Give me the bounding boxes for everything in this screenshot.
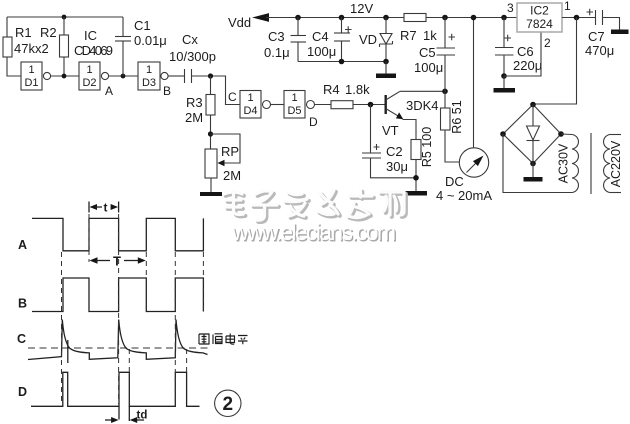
wire R4 to base <box>353 104 385 106</box>
capacitor C1 <box>115 17 131 76</box>
capacitor Cx <box>185 69 192 83</box>
capacitor C2 polarized <box>362 105 416 178</box>
svg-text:1: 1 <box>564 0 571 13</box>
wire rail after R7 <box>426 17 517 19</box>
svg-text:10/300p: 10/300p <box>169 49 216 64</box>
svg-text:2: 2 <box>544 36 551 50</box>
dim t ticks <box>88 202 90 213</box>
dashed guide x118.6 <box>118 214 120 404</box>
svg-text:1: 1 <box>247 92 253 104</box>
svg-text:0.1μ: 0.1μ <box>264 45 290 60</box>
wire Cx to node C corner <box>192 76 241 105</box>
svg-text:T: T <box>113 254 121 269</box>
label threshold 阈值电平 <box>199 334 248 345</box>
svg-text:0.01μ: 0.01μ <box>134 33 167 48</box>
ground emitter <box>405 191 427 196</box>
svg-text:2M: 2M <box>185 110 203 125</box>
svg-text:RP: RP <box>221 144 239 159</box>
regulator IC2 7824 <box>517 3 562 32</box>
ground C7 <box>611 30 629 35</box>
resistor R3 <box>206 95 215 116</box>
dashed guide x62 <box>61 252 63 404</box>
inverter U-D4 <box>240 91 271 119</box>
potentiometer RP <box>205 134 240 178</box>
svg-text:Vdd: Vdd <box>228 15 251 30</box>
wire collector to C5 branch <box>400 90 445 92</box>
wire bridge right to winding top <box>561 133 572 136</box>
wire R3 bottom <box>210 115 212 149</box>
svg-text:47kx2: 47kx2 <box>14 41 49 56</box>
svg-text:www.elecians.com: www.elecians.com <box>231 219 396 245</box>
bridge rectifier <box>500 102 564 167</box>
capacitor C7 polarized <box>587 9 620 30</box>
junction C1 bottom <box>121 74 126 79</box>
svg-text:7824: 7824 <box>526 17 553 31</box>
tick first crossing <box>67 340 69 363</box>
transistor VT 3DK4 <box>386 91 404 119</box>
transformer winding AC220V <box>604 135 621 193</box>
dashed guide crossing2 <box>128 349 130 372</box>
resistor R4 <box>331 101 353 109</box>
transformer core <box>590 133 592 194</box>
svg-text:D2: D2 <box>82 77 96 89</box>
svg-text:VD: VD <box>359 32 377 47</box>
wire meter top to rail <box>473 18 475 148</box>
svg-text:D: D <box>18 385 27 399</box>
svg-text:R1: R1 <box>15 25 32 40</box>
svg-text:C5: C5 <box>419 45 436 60</box>
wire D3 out to Cx <box>168 75 184 77</box>
svg-text:1: 1 <box>146 64 152 76</box>
figure number circle 2 <box>215 390 241 416</box>
wire RP bottom <box>210 178 212 192</box>
capacitor C4 polarized <box>334 18 352 62</box>
junction C4 top <box>339 15 345 21</box>
svg-text:4 ~ 20mA: 4 ~ 20mA <box>436 188 492 203</box>
svg-text:1.8k: 1.8k <box>345 82 370 97</box>
resistor R2 <box>60 35 69 57</box>
wire R1 left branch <box>6 17 8 37</box>
svg-text:2: 2 <box>223 394 234 415</box>
wire pin2 of IC2 <box>504 32 541 76</box>
junction C5 top <box>442 15 448 21</box>
node top junction <box>62 15 67 20</box>
junction collector/C5/R6 <box>442 89 448 95</box>
watermark highlight 电子发烧友网 <box>224 190 404 220</box>
ground RP <box>200 192 222 196</box>
junction output <box>574 15 580 21</box>
svg-text:C: C <box>228 90 237 104</box>
svg-text:R7: R7 <box>400 28 417 43</box>
svg-text:IC: IC <box>84 28 97 43</box>
inverter U-D5 <box>284 91 315 119</box>
trace D <box>31 372 200 406</box>
wire top-left feedback rail <box>7 16 123 18</box>
svg-text:2M: 2M <box>223 168 241 183</box>
junction VD top <box>383 15 389 21</box>
resistor R1 <box>3 37 12 57</box>
svg-text:AC220V: AC220V <box>609 140 623 187</box>
transformer winding AC30V <box>572 135 578 193</box>
svg-text:D: D <box>309 115 318 129</box>
junction C4 bottom <box>339 59 345 65</box>
wire bridge left to winding bottom <box>503 134 572 193</box>
wire VD to ground <box>385 62 387 74</box>
svg-text:td: td <box>137 410 148 422</box>
junction C2/R5 <box>413 175 419 181</box>
svg-text:3DK4: 3DK4 <box>406 98 439 113</box>
dim td arrows <box>105 419 112 421</box>
svg-text:B: B <box>163 84 171 98</box>
dim td ticks <box>118 406 120 419</box>
wire R5 bottom <box>415 160 417 192</box>
wire R1 bottom to D1 input <box>7 57 21 76</box>
wire D1 out to D2 in <box>51 75 79 77</box>
wire R2 top <box>63 17 65 35</box>
svg-text:CD4069: CD4069 <box>74 43 113 58</box>
resistor R6 <box>441 108 451 130</box>
svg-text:1: 1 <box>28 64 34 76</box>
junction meter branch <box>471 15 477 21</box>
zener diode VD <box>380 18 393 62</box>
resistor R7 in rail <box>404 14 426 22</box>
svg-text:DC: DC <box>445 174 464 189</box>
trace C <box>28 320 208 360</box>
svg-text:A: A <box>105 84 113 98</box>
svg-text:C4: C4 <box>312 29 329 44</box>
wire output to bridge top <box>533 18 577 105</box>
resistor R5 <box>411 140 421 160</box>
svg-text:1: 1 <box>86 64 92 76</box>
capacitor C3 <box>291 18 307 62</box>
svg-text:C3: C3 <box>268 29 285 44</box>
svg-text:C2: C2 <box>386 144 403 159</box>
dashed guide x146.3 <box>145 252 147 276</box>
svg-text:C: C <box>17 332 26 346</box>
svg-text:R5 100: R5 100 <box>420 127 434 167</box>
wire D2 out to D3 in <box>109 75 138 77</box>
svg-text:12V: 12V <box>350 1 373 16</box>
dashed guide crossing3 <box>186 349 188 372</box>
wire R6 top <box>444 91 446 108</box>
svg-text:30μ: 30μ <box>386 159 408 174</box>
svg-text:C6: C6 <box>517 44 534 59</box>
trace A <box>32 218 203 250</box>
inverter U-D2 <box>79 62 109 90</box>
junction base/C2 <box>368 102 374 108</box>
svg-text:D3: D3 <box>142 77 156 89</box>
svg-text:3: 3 <box>507 1 514 15</box>
wire main 12V rail <box>266 17 404 19</box>
svg-text:B: B <box>18 297 27 311</box>
svg-text:D1: D1 <box>24 77 38 89</box>
svg-text:R6 51: R6 51 <box>450 100 464 133</box>
svg-text:R4: R4 <box>323 82 340 97</box>
svg-text:100μ: 100μ <box>307 44 336 59</box>
meter DC 4~20mA <box>459 148 488 177</box>
threshold dashed level <box>28 347 208 349</box>
wire R2 bottom <box>63 57 65 76</box>
svg-text:VT: VT <box>382 123 399 138</box>
svg-text:100μ: 100μ <box>414 60 443 75</box>
svg-text:C7: C7 <box>588 29 605 44</box>
dashed guide x203.4 <box>202 252 204 311</box>
wire C6 ground stub <box>503 76 505 88</box>
svg-text:IC2: IC2 <box>530 4 549 18</box>
wire emitter to R5 <box>403 120 417 140</box>
svg-text:R2: R2 <box>40 25 57 40</box>
wire D4 out to D5 in <box>271 104 284 106</box>
ground C6 <box>494 88 516 93</box>
svg-text:1k: 1k <box>423 28 437 43</box>
inverter U-D1 <box>21 62 51 90</box>
svg-text:R3: R3 <box>186 95 203 110</box>
dashed guide x175.3 <box>174 252 176 404</box>
wire bridge bottom to ground <box>532 164 534 178</box>
svg-text:470μ: 470μ <box>585 43 614 58</box>
svg-text:A: A <box>18 238 27 252</box>
wire R3 top <box>210 76 212 95</box>
junction R3/RP <box>208 131 213 136</box>
ground bridge <box>524 177 543 182</box>
capacitor C5 polarized <box>437 18 456 92</box>
inverter U-D3 <box>138 62 168 90</box>
dashed guide x89 <box>88 214 90 262</box>
wire R6 bottom to meter <box>445 130 459 162</box>
svg-text:Cx: Cx <box>182 32 198 47</box>
svg-text:D4: D4 <box>243 105 257 117</box>
junction Cx/R3 <box>208 73 213 78</box>
svg-text:t: t <box>104 201 108 215</box>
svg-text:C1: C1 <box>134 18 151 33</box>
svg-text:D5: D5 <box>287 105 301 117</box>
Vdd arrow <box>252 13 269 22</box>
junction C6 top <box>501 15 507 21</box>
capacitor C6 polarized <box>495 18 514 77</box>
junction VD bottom <box>383 59 389 65</box>
svg-text:1: 1 <box>291 92 297 104</box>
dim t arrows <box>90 204 98 210</box>
dim T arrows <box>90 257 98 263</box>
junction C3 top <box>295 15 301 21</box>
svg-text:220μ: 220μ <box>513 58 542 73</box>
trace B <box>32 278 203 312</box>
watermark shadow 电子发烧友网 <box>226 192 406 222</box>
wire C3-C4-VD bottom <box>298 61 386 63</box>
ground VD <box>376 74 396 79</box>
svg-text:AC30V: AC30V <box>557 143 571 183</box>
wire D5 out to R4 <box>315 104 331 106</box>
junction C6 bottom pin2 <box>501 73 507 79</box>
wire IC2 output <box>562 17 595 19</box>
junction D1-out/R2 <box>62 74 67 79</box>
